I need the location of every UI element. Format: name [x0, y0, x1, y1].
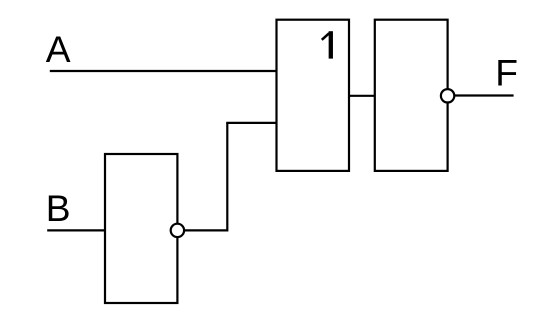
wire B to inverter input: [47, 229, 105, 231]
inversion bubble U3: [441, 89, 454, 102]
svg-text:A: A: [46, 28, 71, 70]
wire riser vertical: [226, 123, 228, 232]
wire A to OR gate input: [50, 70, 277, 72]
wire U2 output to U3 input: [349, 95, 375, 97]
wire F output: [454, 94, 513, 96]
svg-text:F: F: [495, 52, 518, 94]
OR gate label 1 (flag): [322, 33, 329, 40]
OR gate label 1 (stem): [329, 31, 333, 58]
svg-text:B: B: [46, 187, 71, 229]
wire to OR gate lower input: [226, 122, 276, 124]
wire U1 output horizontal: [184, 229, 227, 231]
inversion bubble U1: [171, 224, 184, 237]
inverter U1 box: [105, 154, 177, 303]
OR gate U2 box: [277, 20, 350, 171]
inverter U3 box: [375, 20, 448, 171]
